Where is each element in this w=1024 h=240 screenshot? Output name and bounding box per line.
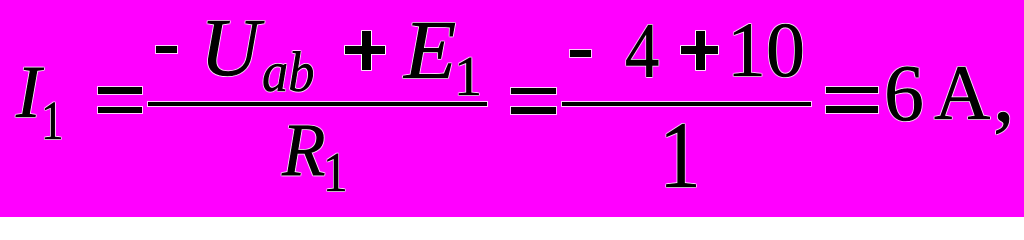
equals sign 3 bottom bar [826,106,878,113]
letter A [934,54,990,132]
equals sign 2 bottom bar [511,107,556,113]
fraction bar 1 [148,102,487,106]
variable E [404,9,456,93]
subscript 1 of E [454,49,482,105]
digit 6 [884,54,924,134]
equals sign 3 top bar [826,87,878,93]
minus sign 1 [156,46,177,54]
comma [993,49,1015,135]
variable U [200,6,260,89]
digit 4 [625,12,659,90]
plus sign 1 [345,31,385,70]
minus sign 2 [570,50,591,57]
number 10 [727,11,805,89]
variable R [282,113,326,188]
denominator 1 [659,108,701,203]
equals sign 1 top bar [98,87,142,93]
subscript ab [262,44,314,101]
equals sign 2 top bar [511,88,556,94]
variable I [16,55,41,130]
subscript 1 of I [41,93,64,148]
subscript 1 of R [323,145,348,201]
fraction bar 2 [562,102,811,106]
equals sign 1 bottom bar [98,107,142,113]
plus sign 2 [681,31,718,70]
